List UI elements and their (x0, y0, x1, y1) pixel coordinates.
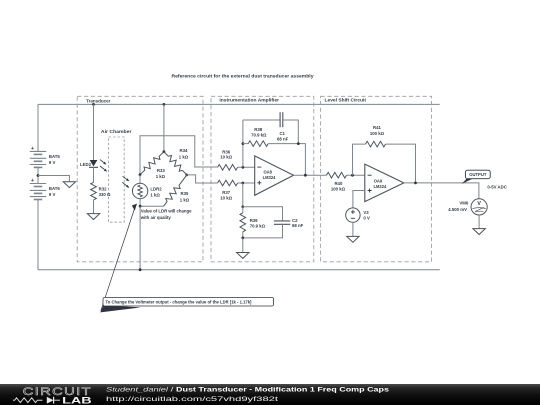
svg-text:0 V: 0 V (363, 215, 370, 220)
LDR light arrow 2 (122, 182, 127, 186)
wire bridge right node jog (187, 175, 218, 183)
svg-text:To Change the Voltmeter output: To Change the Voltmeter output - change … (106, 299, 253, 304)
wire C1 row right (283, 120, 299, 144)
note box (103, 297, 274, 306)
svg-text:1 kΩ: 1 kΩ (150, 193, 160, 198)
svg-text:R37: R37 (222, 190, 230, 195)
svg-text:Air Chamber: Air Chamber (101, 129, 132, 134)
footer bar (0, 384, 540, 405)
node bridge right (185, 174, 188, 177)
svg-text:70.9 kΩ: 70.9 kΩ (250, 223, 266, 228)
svg-text:9 V: 9 V (49, 160, 56, 165)
wire bridge bottom to rail (139, 206, 141, 270)
Level Shift Circuit box (321, 96, 432, 261)
capacitor C1 68nF (280, 112, 283, 127)
svg-text:+: + (31, 178, 34, 184)
op-amp OA8 LM324 (255, 156, 294, 195)
Instrumentation Amplifier box (211, 96, 314, 261)
wire R32 to ground (93, 200, 95, 214)
svg-text:OA8: OA8 (263, 170, 272, 175)
svg-text:BAT5: BAT5 (49, 154, 61, 159)
wire voltmeter to ground (478, 215, 480, 229)
wire OA9 output (404, 183, 479, 199)
wire OA9 plus input (353, 191, 365, 208)
wire LED anode (93, 104, 95, 160)
svg-text:100 kΩ: 100 kΩ (331, 187, 346, 192)
LDR light arrow 1 (123, 176, 127, 179)
svg-text:R34: R34 (180, 148, 188, 153)
wire C1 row left (243, 119, 280, 121)
svg-text:+: + (31, 146, 34, 152)
wire LED cathode to R32 (93, 167, 95, 182)
resistor R36 10k (218, 165, 238, 171)
svg-text:V: V (477, 201, 481, 207)
resistor R39 70.9k (240, 213, 246, 232)
svg-text:70.9 kΩ: 70.9 kΩ (251, 132, 267, 137)
svg-text:Instrumentation Amplifier: Instrumentation Amplifier (219, 97, 279, 102)
node R39 bottom tee (241, 237, 244, 240)
wire bridge feed (163, 104, 165, 151)
node output feedback tee (414, 182, 417, 185)
svg-text:Value of LDR will change: Value of LDR will change (141, 209, 192, 214)
wire battery column bottom (37, 200, 39, 270)
battery BAT5 9V (30, 150, 46, 152)
svg-text:100 kΩ: 100 kΩ (370, 131, 385, 136)
svg-text:Student_daniel / Dust Transduc: Student_daniel / Dust Transducer - Modif… (106, 386, 390, 393)
node R39 top tee (241, 205, 244, 208)
svg-text:LAB: LAB (62, 396, 92, 405)
svg-text:330 Ω: 330 Ω (99, 192, 111, 197)
svg-text:with air quality: with air quality (140, 215, 172, 220)
wire between batteries (37, 167, 39, 183)
svg-text:V3: V3 (363, 210, 369, 215)
svg-text:Reference circuit for the exte: Reference circuit for the external dust … (172, 74, 314, 79)
wire R36 to op-amp (238, 166, 255, 168)
node battery midpoint (37, 174, 40, 177)
ground battery midpoint (63, 182, 75, 188)
wire feedback left vertical (242, 120, 244, 167)
battery BAT6 9V (30, 183, 46, 185)
svg-text:9 V: 9 V (49, 192, 56, 197)
resistor R35 1k (161, 173, 189, 208)
Transducer box (77, 96, 203, 261)
wire R37 to op-amp (238, 182, 255, 184)
ground IA (237, 253, 249, 259)
resistor R34 1k (162, 150, 189, 177)
svg-text:BAT6: BAT6 (49, 186, 61, 191)
wire OA9 feedback up (353, 144, 366, 175)
wire bridge crossover left-to-R36 (140, 136, 218, 175)
svg-text:1 kΩ: 1 kΩ (179, 154, 189, 159)
LED light arrow 1 (100, 160, 104, 163)
node bridge top (163, 150, 166, 153)
svg-text:4.500 mV: 4.500 mV (448, 207, 467, 212)
ground V3 (347, 236, 359, 242)
resistor R37 10k (218, 180, 238, 186)
node bottom rail tap (139, 268, 142, 271)
node bridge left (139, 173, 142, 176)
ground LED branch (87, 214, 99, 220)
node OA8 inverting input (242, 166, 245, 169)
svg-text:68 nF: 68 nF (277, 136, 289, 141)
svg-text:0-5V ADC: 0-5V ADC (487, 185, 506, 190)
svg-text:R41: R41 (373, 125, 381, 130)
svg-text:10 kΩ: 10 kΩ (220, 195, 232, 200)
resistor R40 100k (327, 172, 347, 178)
svg-text:C1: C1 (279, 131, 285, 136)
voltmeter VM6 (471, 199, 487, 215)
wire battery column top (37, 104, 39, 151)
svg-text:http://circuitlab.com/c57vhd9y: http://circuitlab.com/c57vhd9yf382t (106, 396, 278, 403)
voltage source V3 0V (346, 208, 360, 222)
callout wedge (100, 305, 141, 312)
logo resistor-diode glyph (13, 398, 42, 403)
node LED tap on top rail (92, 103, 95, 106)
svg-text:LDR2: LDR2 (150, 186, 162, 191)
wire OA8 output (294, 174, 327, 176)
node LDR bottom tee (139, 205, 142, 208)
node C1 right tee (297, 142, 300, 145)
svg-text:R33: R33 (157, 168, 165, 173)
wire C2 bottom (243, 224, 283, 238)
node bridge feed tap (163, 103, 166, 106)
node OA8 noninverting input (241, 182, 244, 185)
LED light arrow 2 (100, 166, 105, 170)
svg-text:Transducer: Transducer (86, 99, 111, 104)
wire bottom supply rail (38, 269, 440, 271)
wire R38 row right (268, 144, 305, 176)
svg-text:LM324: LM324 (374, 184, 387, 189)
svg-text:Level Shift Circuit: Level Shift Circuit (325, 97, 367, 102)
wire plus input down (242, 183, 244, 207)
wire to battery ground (38, 176, 69, 182)
svg-text:LED2: LED2 (80, 162, 92, 167)
resistor R41 100k (366, 141, 386, 147)
svg-text:VM6: VM6 (459, 201, 468, 206)
wire R41 to output (386, 144, 416, 183)
Air Chamber box (109, 137, 125, 222)
photoresistor LDR2 (132, 183, 147, 198)
LED D2 LED2 (90, 160, 98, 166)
svg-text:R36: R36 (222, 149, 230, 154)
svg-text:R39: R39 (250, 218, 258, 223)
wire R40 to OA9 (347, 174, 365, 176)
svg-text:OUTPUT: OUTPUT (469, 172, 487, 177)
wire R39 top lead (242, 207, 244, 213)
svg-text:R35: R35 (181, 191, 189, 196)
svg-text:LM324: LM324 (263, 175, 276, 180)
resistor R32 (91, 182, 97, 200)
wire R39 bottom lead (242, 232, 244, 238)
callout line (101, 207, 135, 311)
wire R39C2 top row (243, 207, 283, 221)
capacitor C2 68nF (274, 221, 290, 224)
resistor R38 70.9k (248, 141, 268, 147)
svg-text:68 nF: 68 nF (292, 223, 304, 228)
wire bridge left node to LDR (139, 175, 141, 184)
wire to IA ground (242, 238, 244, 253)
OUTPUT flag (462, 179, 473, 184)
wire R38 row left (243, 143, 248, 145)
wire top supply rail (38, 103, 440, 105)
op-amp OA9 LM324 (365, 164, 404, 202)
wire LDR to bridge bottom (140, 199, 164, 207)
node OA9 inverting input (351, 174, 354, 177)
svg-text:R40: R40 (334, 181, 342, 186)
node R38 left tee (242, 142, 245, 145)
wire V3 to ground (352, 222, 354, 236)
svg-text:1 kΩ: 1 kΩ (156, 174, 166, 179)
svg-text:R32: R32 (99, 187, 107, 192)
svg-text:OA9: OA9 (374, 178, 383, 183)
resistor R33 1k (138, 150, 166, 177)
node OA8 output feedback tee (304, 174, 307, 177)
callout arrowhead (132, 204, 137, 211)
svg-text:10 kΩ: 10 kΩ (220, 155, 232, 160)
ground voltmeter (473, 229, 485, 235)
svg-text:1 kΩ: 1 kΩ (180, 197, 190, 202)
